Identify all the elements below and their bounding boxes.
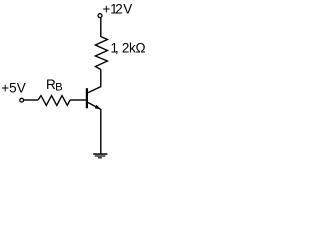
- svg-text:B: B: [55, 82, 63, 94]
- svg-text:+12V: +12V: [102, 2, 132, 17]
- svg-text:1,2kΩ: 1,2kΩ: [110, 40, 145, 55]
- svg-text:+5V: +5V: [1, 81, 25, 96]
